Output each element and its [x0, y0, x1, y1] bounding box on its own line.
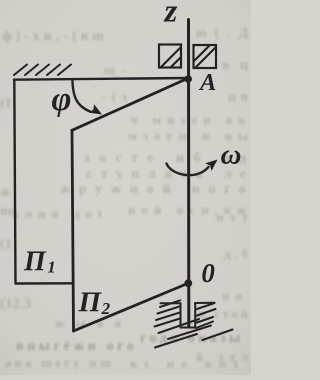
svg-text:A: A — [198, 69, 216, 96]
svg-text:д.б: д.б — [224, 246, 249, 261]
svg-text:φ: φ — [52, 81, 72, 118]
svg-text:-(т: -(т — [102, 89, 129, 104]
svg-text:z: z — [164, 0, 178, 30]
svg-text:вныгёжи ого: вныгёжи ого — [16, 339, 134, 354]
svg-text:нэт: нэт — [216, 209, 249, 224]
svg-text:(12.3: (12.3 — [0, 296, 31, 312]
svg-text:0: 0 — [201, 258, 215, 288]
svg-text:впия доt: впия доt — [12, 206, 103, 221]
svg-text:(1: (1 — [0, 237, 12, 252]
svg-text:(1: (1 — [0, 96, 12, 111]
svg-text:ω: ω — [221, 139, 242, 171]
svg-text:ж: ж — [0, 185, 11, 200]
svg-text:ава шегу нш: ава шегу нш — [5, 355, 111, 370]
svg-text:года оказы: года оказы — [140, 331, 240, 346]
